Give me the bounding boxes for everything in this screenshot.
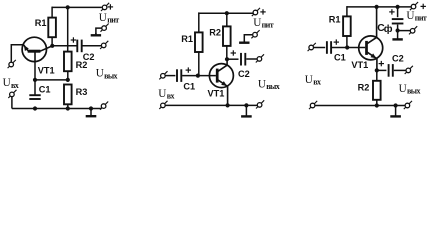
resistor R1 (base bias) <box>343 16 351 36</box>
wire: top supply rail of circuit 1 <box>52 6 102 8</box>
transistor VT1 emitter diagonal <box>217 79 227 105</box>
wire: divider node to base line <box>35 79 68 81</box>
junction: C_f to supply return <box>396 28 400 32</box>
svg-text:VT1: VT1 <box>38 66 55 76</box>
transistor VT1 body circle <box>22 37 46 61</box>
wire: bottom common rail of circuit 2 <box>165 104 257 106</box>
wire: rail corner down to R1 <box>346 6 348 16</box>
transistor VT1 body circle <box>209 64 233 88</box>
junction: emitter output node <box>375 68 379 72</box>
junction: emitter to ground rail <box>226 103 230 107</box>
wire: branch from supply rail down to R2 (crosses output wire) <box>67 7 69 51</box>
wire: C_f bottom to negative supply node <box>397 25 399 31</box>
wire: R2 bottom lead to divider node <box>67 71 69 80</box>
terminal: output signal <box>256 54 264 62</box>
terminal: input signal <box>308 43 316 51</box>
plus sign of C_f polarity <box>389 9 394 14</box>
svg-text:C2: C2 <box>238 69 250 79</box>
wire: C_f branch from rail <box>397 7 399 17</box>
wire: input terminal to C1 <box>166 75 176 77</box>
wire: R1 top lead from rail <box>51 7 53 18</box>
junction: C_f branch on rail <box>396 5 400 9</box>
terminal: +U_pit supply <box>252 8 260 16</box>
junction: supply rail to R2 <box>225 11 229 15</box>
transistor VT1 emitter diagonal <box>367 52 377 71</box>
transistor VT1 base lead going down <box>34 51 36 62</box>
transistor VT1 base bar (vertical) <box>365 41 368 55</box>
capacitor C2 (output coupling) <box>241 53 245 66</box>
svg-text:VT1: VT1 <box>351 60 368 70</box>
svg-text:VT1: VT1 <box>208 89 225 99</box>
resistor R2 (collector load) <box>223 26 231 46</box>
wire: base line down to C1 <box>34 62 36 96</box>
wire: C1 to base <box>332 47 365 49</box>
junction: ground symbol node <box>244 103 248 107</box>
wire: input terminal to C1 <box>314 47 325 49</box>
capacitor C2 (output coupling) <box>389 64 393 77</box>
wire: rail corner down to R1 <box>198 12 200 32</box>
svg-text:ф: ф <box>384 23 393 35</box>
terminal: output signal <box>405 66 413 74</box>
capacitor C_f (supply filter) <box>392 19 404 23</box>
junction: C1 to ground rail <box>33 106 37 110</box>
terminal: common at rail end <box>100 102 108 110</box>
svg-text:R2: R2 <box>209 28 221 38</box>
wire: top supply rail of circuit 3 <box>347 6 411 8</box>
terminal: input return <box>159 101 167 109</box>
resistor R3 <box>64 85 72 105</box>
wire: input terminal riser to emitter <box>11 45 23 62</box>
svg-text:R1: R1 <box>329 15 341 25</box>
wire: node to supply return terminal <box>398 30 411 32</box>
wire: emitter node down to R2 <box>376 70 378 80</box>
ground symbol below C_f node <box>392 31 402 40</box>
plus sign of C2 polarity <box>379 61 384 66</box>
wire: emitter node to C2 <box>377 69 387 71</box>
terminal: output return at rail end <box>256 100 264 108</box>
capacitor C2 (output coupling) <box>77 40 81 53</box>
wire: C2 to output terminal <box>83 45 102 47</box>
resistor R2 (emitter load) <box>373 81 381 100</box>
capacitor C1 (input coupling) <box>327 41 331 54</box>
terminal: input signal (top of U_vh pair) <box>8 60 16 68</box>
terminal: input return (bottom of U_vh pair) <box>8 90 16 98</box>
terminal: input signal <box>159 71 167 79</box>
wire: collector node to C2 <box>52 45 76 47</box>
terminal: supply return <box>409 26 417 34</box>
junction: ground symbol node <box>394 103 398 107</box>
svg-text:C2: C2 <box>83 52 95 62</box>
wire: negative supply terminal to chassis ground <box>96 28 102 34</box>
wire: C1 to base <box>182 75 216 77</box>
transistor VT1 emitter arrow (points out, up-left) <box>24 45 29 51</box>
capacitor C1 (input coupling) <box>177 69 181 82</box>
junction: collector output node <box>50 44 54 48</box>
terminal: input return <box>309 101 317 109</box>
ground symbol on bottom rail <box>241 105 252 116</box>
wire: C2 to output terminal <box>246 58 257 60</box>
wire: R1 bottom to base node <box>346 36 348 48</box>
transistor VT1 base bar (horizontal) <box>28 50 41 53</box>
resistor R1 <box>48 18 56 38</box>
junction: supply rail to R2 branch <box>66 5 70 9</box>
transistor VT1 base bar (vertical) <box>216 69 219 83</box>
wire: top supply rail of circuit 2 <box>199 12 253 14</box>
resistor R1 (base bias) <box>195 32 203 52</box>
transistor VT1 body circle <box>359 36 383 60</box>
transistor VT1 collector diagonal <box>217 59 227 72</box>
transistor VT1 emitter arrow (points down-right) <box>371 53 377 58</box>
junction: collector node to C2 <box>225 57 229 61</box>
plus sign at supply terminal <box>260 9 265 14</box>
plus sign at supply terminal <box>108 4 113 9</box>
circuit 1: common-base amplifier stage <box>3 3 120 116</box>
wire: rail branch down to R2 <box>226 13 228 26</box>
svg-text:R3: R3 <box>76 87 88 97</box>
plus sign of C1 polarity <box>186 67 191 72</box>
capacitor C1 (base bypass) <box>29 95 40 99</box>
svg-text:C1: C1 <box>183 81 195 91</box>
terminal: +U_pit supply <box>410 2 418 10</box>
junction: base node (R1 tap) <box>196 74 200 78</box>
junction: base line tap <box>33 78 37 82</box>
transistor VT1 emitter arrow (points down-right) <box>221 81 227 86</box>
ground symbol at negative supply <box>239 41 249 43</box>
junction: ground symbol node on rail <box>89 106 93 110</box>
junction: collector branch on rail <box>375 5 379 9</box>
wire: R2 bottom to collector node <box>226 46 228 59</box>
transistor VT1 collector diagonal up to rail <box>367 7 377 44</box>
circuit 3: common-collector amplifier stage <box>305 2 427 116</box>
wire: bottom common rail of circuit 3 <box>315 105 405 107</box>
wire: R2 bottom to ground rail <box>376 100 378 106</box>
terminal: supply return <box>251 30 259 38</box>
svg-text:C1: C1 <box>334 53 346 63</box>
svg-text:R1: R1 <box>181 34 193 44</box>
wire: input return down to ground rail <box>11 97 13 109</box>
svg-text:C2: C2 <box>392 54 404 64</box>
circuit 2: common-emitter amplifier stage <box>158 8 279 117</box>
transistor VT1 collector diagonal <box>40 46 52 51</box>
wire: bottom common rail of circuit 1 <box>12 108 102 110</box>
plus sign of C2 polarity <box>71 37 76 42</box>
plus sign at supply terminal <box>421 4 426 9</box>
wire: R1 bottom to base node <box>198 52 200 76</box>
svg-text:R1: R1 <box>35 18 47 28</box>
plus sign of C1 polarity <box>334 39 339 44</box>
transistor VT1 emitter diagonal <box>24 45 29 51</box>
wire: collector node to C2 <box>227 58 239 60</box>
wire: C2 to output terminal <box>394 69 406 71</box>
terminal: output (top of U_vyh pair) <box>100 41 108 49</box>
terminal: output return at rail end <box>404 101 412 109</box>
wire: R1 bottom lead to collector node <box>51 37 53 46</box>
plus sign of C2 polarity <box>231 50 236 55</box>
terminal: supply return <box>101 24 109 32</box>
junction: R2-R3 divider node <box>66 78 70 82</box>
wire: negative supply terminal to chassis ground <box>244 35 252 42</box>
wire: R3 bottom lead to ground rail <box>67 104 69 108</box>
junction: R2 to ground rail <box>375 103 379 107</box>
resistor R2 <box>64 52 72 72</box>
ground symbol on bottom rail <box>86 109 97 117</box>
junction: R3 to ground rail <box>66 106 70 110</box>
terminal: +U_pit supply <box>101 3 109 11</box>
junction: base node (R1 tap) <box>345 45 349 49</box>
ground symbol at negative supply <box>91 33 101 35</box>
ground symbol on bottom rail <box>390 106 401 117</box>
svg-text:R2: R2 <box>358 82 370 92</box>
svg-text:C1: C1 <box>39 84 51 94</box>
